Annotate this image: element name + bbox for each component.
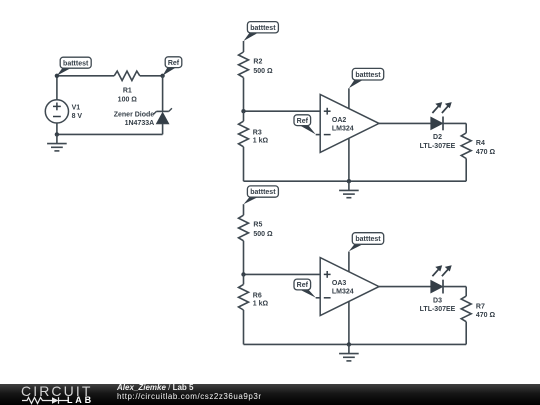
resistor R2: [239, 52, 249, 78]
wire R5 to junction: [243, 241, 245, 275]
label D3 value: [420, 297, 456, 313]
label R2 value: [253, 58, 273, 74]
wire junction to op-amp + input: [244, 110, 321, 112]
node junction R2/R3: [241, 109, 245, 113]
label R5 value: [253, 222, 273, 238]
svg-text:1 kΩ: 1 kΩ: [253, 301, 269, 308]
label R1 value: [118, 88, 138, 104]
svg-text:batttest: batttest: [63, 60, 89, 67]
wire OA2 V+ pin: [348, 88, 350, 108]
svg-text:R1: R1: [123, 88, 132, 95]
net flag Ref (OA2 - input): [294, 115, 316, 135]
svg-text:R6: R6: [253, 293, 262, 300]
resistor R4: [461, 133, 471, 159]
ground left: [47, 134, 67, 151]
net flag batttest (OA3 V+): [349, 233, 384, 252]
svg-text:V1: V1: [72, 104, 81, 111]
wire R2 to junction: [243, 78, 245, 112]
wire OA3 output: [379, 286, 431, 288]
label R3 value: [253, 129, 269, 144]
wire junction to R6: [243, 274, 245, 284]
op-amp OA3: [320, 258, 379, 316]
wire bottom rail left: [57, 133, 163, 135]
node junction R5/R6: [241, 272, 245, 276]
wire R3 to rail: [243, 147, 245, 181]
ground OA2: [339, 181, 359, 198]
label zener value: [114, 111, 155, 127]
svg-text:R2: R2: [253, 58, 262, 65]
label V1 value: [72, 104, 83, 119]
svg-text:R5: R5: [253, 222, 262, 229]
net flag batttest (R5 top): [244, 186, 279, 204]
node ground left: [55, 132, 59, 136]
wire Ref stub to - input: [316, 134, 321, 136]
svg-text:8 V: 8 V: [72, 113, 83, 120]
label R4 value: [476, 140, 496, 156]
svg-text:LM324: LM324: [332, 289, 354, 296]
wire R7 to rail: [465, 322, 467, 345]
wire V1 bottom: [56, 123, 58, 134]
svg-text:R3: R3: [253, 129, 262, 136]
svg-text:100 Ω: 100 Ω: [118, 96, 138, 103]
svg-text:batttest: batttest: [250, 189, 276, 196]
wire D3 to corner: [443, 286, 466, 288]
wire R6 to rail: [243, 310, 245, 344]
node A (batttest): [55, 74, 59, 78]
wire corner to R7: [465, 287, 467, 297]
wire node-A to R1: [57, 75, 114, 77]
wire OA2 V- pin: [348, 138, 350, 181]
svg-text:1 kΩ: 1 kΩ: [253, 137, 269, 144]
wire OA3 V- pin: [348, 301, 350, 344]
svg-text:batttest: batttest: [355, 72, 381, 79]
svg-text:D2: D2: [433, 134, 442, 141]
net flag batttest (OA2 V+): [349, 68, 384, 88]
svg-text:batttest: batttest: [355, 236, 381, 243]
svg-text:LTL-307EE: LTL-307EE: [420, 306, 456, 313]
svg-text:OA3: OA3: [332, 280, 347, 287]
net flag batttest (R2 top): [244, 22, 279, 41]
svg-text:470 Ω: 470 Ω: [476, 149, 496, 156]
wire Ref stub to - input: [316, 297, 321, 299]
resistor R3: [239, 121, 249, 147]
wire OA3 V+ pin: [348, 252, 350, 272]
svg-text:LTL-307EE: LTL-307EE: [420, 143, 456, 150]
svg-text:Ref: Ref: [297, 282, 309, 289]
resistor R6: [239, 284, 249, 310]
wire flag to R2: [243, 41, 245, 52]
wire R4 to rail: [465, 159, 467, 182]
resistor R5: [239, 215, 249, 241]
label D2 value: [420, 134, 456, 150]
ground OA3: [339, 344, 359, 361]
svg-text:LM324: LM324: [332, 125, 354, 132]
svg-text:Ref: Ref: [168, 60, 180, 67]
wire corner to R4: [465, 123, 467, 132]
svg-text:500 Ω: 500 Ω: [253, 231, 273, 238]
svg-text:1N4733A: 1N4733A: [125, 120, 155, 127]
wire R1 to node Ref: [140, 75, 163, 77]
wire D2 to corner: [443, 122, 466, 124]
wire Ref node to zener: [162, 76, 164, 112]
svg-text:R4: R4: [476, 140, 485, 147]
wire zener to rail: [162, 124, 164, 134]
wire junction to R3: [243, 111, 245, 121]
svg-text:R7: R7: [476, 303, 485, 310]
LED D3: [431, 265, 452, 293]
svg-text:470 Ω: 470 Ω: [476, 312, 496, 319]
svg-text:OA2: OA2: [332, 117, 347, 124]
LED D2: [431, 102, 452, 130]
op-amp OA2: [320, 94, 379, 152]
wire bottom rail: [244, 343, 467, 345]
wire OA2 output: [379, 122, 431, 124]
svg-text:Zener Diode: Zener Diode: [114, 111, 155, 118]
node ground junction OA2: [347, 179, 351, 183]
svg-text:Ref: Ref: [297, 118, 309, 125]
net flag batttest (V1 node): [57, 57, 91, 75]
label R7 value: [476, 303, 496, 319]
wire flag to R5: [243, 204, 245, 215]
wire junction to op-amp + input: [244, 273, 321, 275]
svg-text:D3: D3: [433, 297, 442, 304]
resistor R7: [461, 296, 471, 322]
net flag Ref (OA3 - input): [294, 279, 316, 298]
svg-text:500 Ω: 500 Ω: [253, 68, 273, 75]
wire V1 top: [56, 76, 58, 100]
net flag Ref (zener node): [163, 57, 182, 76]
voltage source V1: [45, 100, 68, 123]
node ground junction OA3: [347, 342, 351, 346]
wire bottom rail: [244, 180, 467, 182]
node Ref junction: [160, 74, 164, 78]
svg-text:batttest: batttest: [250, 25, 276, 32]
resistor R1: [114, 71, 140, 80]
label R6 value: [253, 293, 269, 308]
zener diode D1 1N4733A: [153, 108, 172, 124]
